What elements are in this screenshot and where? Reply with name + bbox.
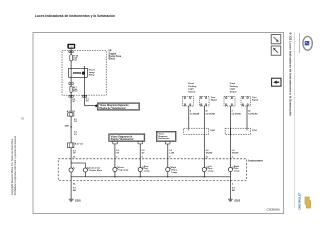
svg-text:GN-RD: GN-RD: [232, 152, 239, 154]
svg-text:Relay: Relay: [89, 75, 96, 77]
I/P fuse block dashed box: [62, 51, 106, 96]
connector pin pair: [69, 51, 71, 53]
hotspot box I30: [67, 44, 75, 49]
switch group 2 text: [230, 82, 239, 93]
svg-text:B-C7 C4: B-C7 C4: [75, 142, 84, 145]
svg-text:Página de “Iluminación”: Página de “Iluminación”: [100, 108, 127, 110]
svg-text:Véase Diagrama de: Véase Diagrama de: [111, 136, 133, 138]
toolbar button zoom in: [271, 35, 281, 87]
toolbar button zoom out: [271, 46, 281, 55]
svg-text:8-132 Luces Indicadoras de In: 8-132 Luces Indicadoras de Instrumentos …: [289, 33, 293, 117]
fuse F7: [70, 84, 72, 86]
switch box A2: [224, 97, 235, 107]
lamp4 front fog: [113, 167, 117, 171]
svg-text:Tail: Tail: [73, 59, 77, 61]
switch group 1 text: [188, 82, 197, 93]
svg-text:Iluminación: Iluminación: [158, 138, 170, 140]
ground wire G202: [229, 172, 231, 200]
svg-text:Cluster Illum: Cluster Illum: [89, 169, 102, 172]
svg-text:0.5 GN-RD: 0.5 GN-RD: [232, 114, 242, 116]
lamp5 rear fog: [138, 167, 142, 171]
wire lamp4: [114, 144, 116, 168]
fuse F14: [70, 55, 73, 61]
cluster lamp right: [83, 168, 87, 172]
ground symbol G201: [69, 198, 74, 200]
svg-text:Switch: Switch: [230, 90, 238, 93]
svg-text:Véase Diagrama Siguiente: Véase Diagrama Siguiente: [100, 104, 130, 107]
svg-text:Fog Lamp: Fog Lamp: [118, 170, 129, 172]
svg-text:Block: Block: [109, 59, 116, 61]
wires group 2: [229, 106, 231, 167]
svg-text:0.5 GN-RD: 0.5 GN-RD: [206, 114, 216, 116]
inline connector C2: [68, 143, 74, 148]
connector row C204 group1: [184, 128, 209, 134]
svg-text:Página “Iluminación”: Página “Iluminación”: [111, 139, 135, 141]
svg-text:G202: G202: [234, 200, 241, 203]
cluster lamp left: [69, 168, 73, 172]
svg-text:0.5 BU-RD: 0.5 BU-RD: [248, 114, 258, 116]
bus wire: [85, 176, 230, 178]
arrow into reference box: [94, 104, 98, 107]
pins at fuse block bottom: [69, 96, 71, 98]
wire labels: [72, 99, 89, 104]
svg-text:Luces Indicadoras de Instrumen: Luces Indicadoras de Instrumentos y la I…: [35, 14, 115, 18]
svg-text:Lamp: Lamp: [144, 171, 150, 173]
svg-text:Signal: Signal: [252, 100, 259, 102]
ground symbol G202: [228, 198, 233, 200]
wire lamp1: [167, 144, 169, 167]
connector row C204 group2: [225, 128, 250, 134]
page frame: [33, 33, 284, 214]
connector pin pair below relay: [69, 83, 71, 85]
svg-text:Instrument: Instrument: [248, 158, 263, 162]
lamp1 high beam: [166, 167, 170, 171]
switch box B2: [241, 97, 251, 107]
reference box 2: [109, 134, 145, 141]
switch box B1: [200, 97, 210, 107]
svg-text:Illum: Illum: [73, 91, 78, 93]
fuse block label: [109, 51, 122, 61]
lamp3 right turn: [228, 167, 232, 171]
toolbar button back: [272, 78, 281, 86]
relay K3 panel lamp relay: [69, 68, 88, 77]
branch wire to reference box: [85, 105, 95, 107]
svg-text:0.5 GN-BK: 0.5 GN-BK: [190, 114, 200, 116]
svg-text:2: 2: [232, 111, 233, 113]
chevrolet bowtie: [305, 197, 311, 208]
svg-text:Light: Light: [188, 88, 194, 91]
svg-text:Front: Front: [230, 82, 236, 85]
reference box 3: [156, 131, 176, 141]
svg-text:Lamp: Lamp: [171, 172, 177, 174]
big dashed instrument cluster box: [58, 159, 246, 181]
relay output wire: [84, 66, 86, 106]
svg-text:G201: G201: [75, 200, 82, 203]
svg-text:Front: Front: [188, 82, 194, 85]
svg-text:CHEVROLET: CHEVROLET: [298, 192, 302, 210]
svg-text:Parking: Parking: [230, 86, 239, 88]
svg-text:Signal: Signal: [211, 100, 218, 102]
svg-text:GN-RD: GN-RD: [206, 152, 213, 154]
svg-text:32: 32: [21, 116, 25, 120]
sidebar logo ring: [299, 33, 301, 53]
svg-text:Parking: Parking: [188, 86, 197, 88]
svg-text:I/P: I/P: [109, 51, 112, 53]
svg-text:Lamp: Lamp: [208, 171, 214, 173]
svg-text:Prohibida la reproducción tota: Prohibida la reproducción total o parcia…: [14, 136, 17, 195]
wire lamp5: [139, 144, 141, 168]
svg-text:C3E8006A: C3E8006A: [266, 208, 280, 212]
cluster illumination box: [71, 163, 85, 177]
svg-text:Engine: Engine: [109, 53, 117, 55]
connector stubs below ref box 2: [113, 141, 118, 144]
wire from hotspot to fuse block: [70, 49, 72, 55]
svg-text:L-GN: L-GN: [169, 152, 174, 154]
svg-text:Switch: Switch: [188, 90, 196, 93]
svg-text:Light: Light: [230, 88, 236, 91]
sidebar rule: [293, 32, 295, 208]
ground wire G201: [70, 177, 72, 199]
svg-text:Room Fuse: Room Fuse: [109, 56, 122, 58]
svg-text:16: 16: [206, 111, 208, 113]
svg-text:Lamp: Lamp: [234, 171, 240, 173]
wire fuse to relay: [70, 61, 72, 83]
lamp2 left turn: [202, 167, 206, 171]
wires group 1: [188, 106, 190, 128]
switch box A1: [183, 97, 194, 107]
reference box Vease Iluminacion: [97, 103, 139, 110]
